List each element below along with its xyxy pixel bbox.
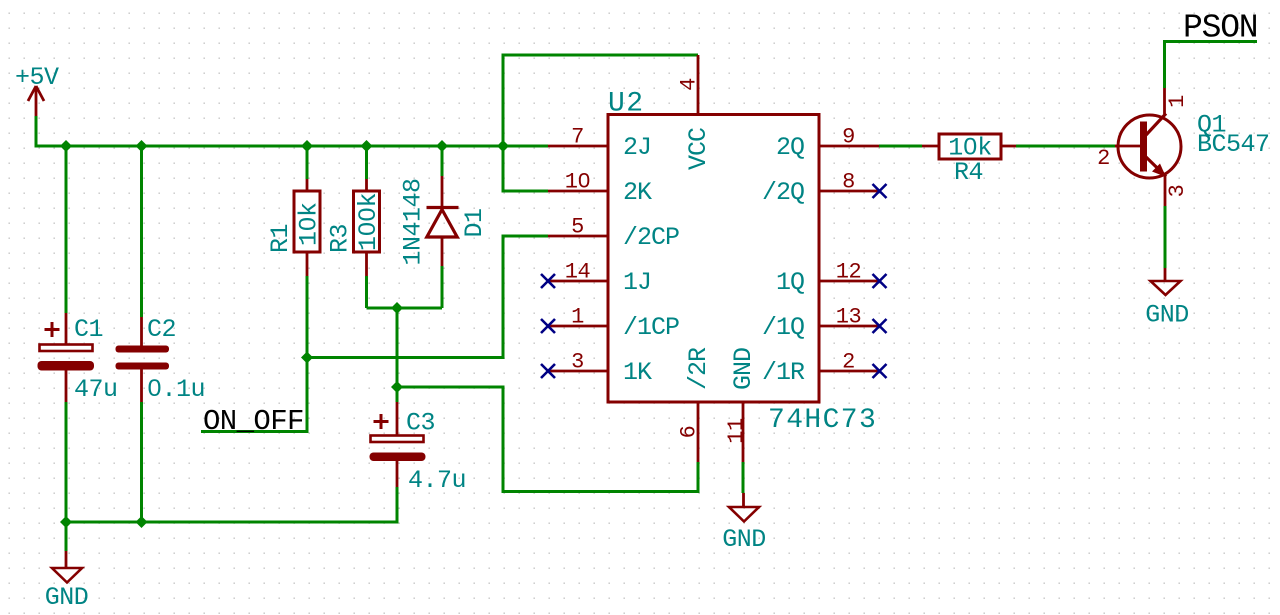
svg-text:1N4148: 1N4148 bbox=[399, 178, 428, 265]
svg-text:1: 1 bbox=[1165, 95, 1190, 108]
svg-text:13: 13 bbox=[836, 305, 861, 330]
svg-text:7: 7 bbox=[571, 125, 584, 150]
svg-text:1Q: 1Q bbox=[776, 268, 804, 297]
svg-text:2Q: 2Q bbox=[776, 133, 804, 162]
svg-text:12: 12 bbox=[836, 260, 861, 285]
svg-text:U2: U2 bbox=[608, 89, 644, 120]
svg-text:8: 8 bbox=[842, 170, 855, 195]
svg-text:GND: GND bbox=[45, 583, 89, 612]
svg-text:R3: R3 bbox=[326, 224, 355, 253]
svg-text:GND: GND bbox=[729, 348, 758, 390]
svg-text:BC547: BC547 bbox=[1197, 130, 1270, 159]
svg-text:PSON: PSON bbox=[1183, 10, 1257, 47]
svg-text:/2R: /2R bbox=[684, 347, 713, 390]
svg-text:D1: D1 bbox=[460, 208, 489, 237]
svg-text:11: 11 bbox=[724, 418, 749, 444]
svg-text:1: 1 bbox=[571, 305, 584, 330]
svg-text:14: 14 bbox=[565, 260, 591, 285]
svg-text:9: 9 bbox=[842, 125, 855, 150]
svg-text:2: 2 bbox=[842, 350, 855, 375]
svg-text:+5V: +5V bbox=[15, 63, 59, 92]
svg-text:1K: 1K bbox=[623, 358, 652, 387]
svg-text:5: 5 bbox=[571, 215, 584, 240]
svg-text:2J: 2J bbox=[623, 133, 651, 162]
svg-text:/2Q: /2Q bbox=[762, 178, 804, 207]
svg-text:47u: 47u bbox=[74, 375, 118, 404]
svg-text:/1CP: /1CP bbox=[623, 313, 679, 342]
svg-text:3: 3 bbox=[571, 350, 584, 375]
svg-text:1J: 1J bbox=[623, 268, 651, 297]
svg-text:100k: 100k bbox=[354, 193, 383, 251]
svg-text:R1: R1 bbox=[266, 224, 295, 253]
svg-text:10: 10 bbox=[565, 170, 590, 195]
svg-text:ON_OFF: ON_OFF bbox=[203, 405, 304, 438]
svg-text:2K: 2K bbox=[623, 178, 652, 207]
svg-text:6: 6 bbox=[677, 426, 702, 439]
svg-text:3: 3 bbox=[1165, 185, 1190, 198]
svg-text:74HC73: 74HC73 bbox=[768, 405, 877, 436]
svg-text:C2: C2 bbox=[147, 315, 176, 344]
svg-text:4: 4 bbox=[677, 78, 702, 91]
svg-text:/1R: /1R bbox=[762, 358, 805, 387]
svg-text:C1: C1 bbox=[74, 315, 103, 344]
svg-text:4.7u: 4.7u bbox=[408, 466, 466, 495]
svg-text:2: 2 bbox=[1097, 146, 1110, 171]
svg-text:GND: GND bbox=[722, 525, 766, 554]
svg-text:/2CP: /2CP bbox=[623, 223, 679, 252]
svg-text:/1Q: /1Q bbox=[762, 313, 804, 342]
svg-text:C3: C3 bbox=[406, 409, 435, 438]
svg-text:GND: GND bbox=[1145, 301, 1189, 330]
svg-text:VCC: VCC bbox=[684, 128, 713, 170]
